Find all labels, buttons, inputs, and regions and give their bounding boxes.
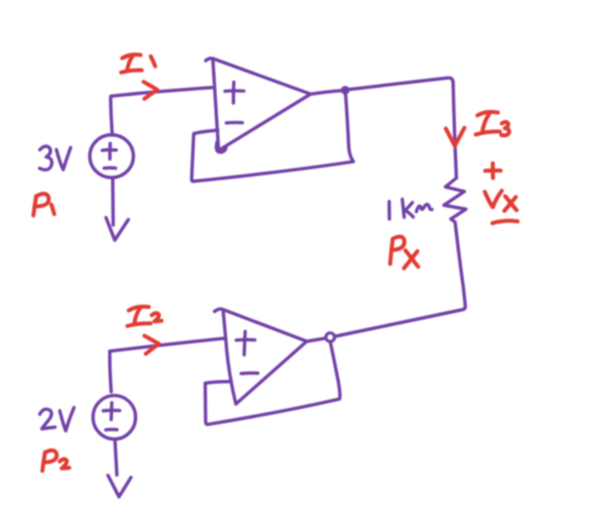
current arrow I2 [144, 336, 158, 354]
current arrow I3 [446, 128, 465, 146]
feedback wire U1 output to minus input [192, 94, 354, 181]
wire node B to op-amp U2 output [307, 338, 325, 341]
label 3V [40, 146, 52, 170]
label Vx [485, 191, 502, 207]
label minus of Vx [492, 221, 517, 223]
current arrow I1 [144, 82, 158, 99]
red ink [33, 55, 517, 471]
label 2V [40, 409, 55, 429]
label P1 [33, 196, 36, 215]
voltage source V1 3V [90, 135, 134, 178]
wire V1 bottom to ground [111, 178, 115, 225]
wire corner down to V2 [110, 351, 111, 392]
op-amp U1 plus input mark [225, 89, 244, 93]
op-amp U2 minus input mark [241, 371, 258, 375]
label P2 [42, 452, 45, 470]
label I1 [122, 55, 140, 59]
label plus of Vx [485, 168, 500, 172]
op-amp U2 [215, 309, 307, 404]
op-amp U2 plus input mark [236, 338, 255, 342]
purple ink [40, 58, 466, 496]
node B open junction [326, 333, 334, 341]
wire V1 top to op-amp U1 + input [111, 88, 212, 136]
ground GND2 [108, 475, 131, 496]
wire V2 bottom to ground [115, 439, 117, 475]
op-amp U1 minus input mark [226, 121, 242, 125]
ground GND1 [106, 218, 128, 241]
wire node A to top-right corner and down to resistor [349, 78, 456, 178]
voltage source V2 2V [93, 396, 136, 440]
label I3 [477, 112, 497, 116]
node A junction dot [341, 86, 350, 95]
wire U1 output to node A [311, 91, 342, 95]
feedback wire U2 output to minus input [205, 342, 340, 424]
label I2 [129, 307, 149, 311]
label 1kohm [388, 202, 392, 220]
wire V2 top to op-amp U2 + input [110, 338, 225, 351]
label Px [390, 239, 393, 264]
resistor R1 zigzag [444, 178, 466, 305]
wire resistor bottom to node B [336, 305, 466, 336]
op-amp U1 [206, 58, 311, 150]
